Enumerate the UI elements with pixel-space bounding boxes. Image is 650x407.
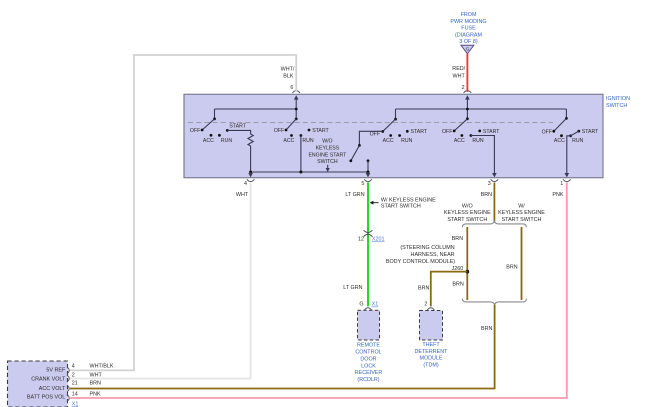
svg-text:W/ KEYLESS ENGINE: W/ KEYLESS ENGINE bbox=[381, 198, 436, 204]
wire: pin 6 drop bbox=[295, 97, 297, 119]
switch gang 4 (pin 3 feed) bbox=[442, 117, 500, 144]
svg-text:RECEIVER: RECEIVER bbox=[355, 370, 383, 376]
svg-text:OFF: OFF bbox=[542, 129, 552, 135]
connector pin 2 (CRANK VOLT) bbox=[67, 372, 102, 382]
svg-text:WHT/BLK: WHT/BLK bbox=[90, 364, 114, 370]
svg-text:START: START bbox=[582, 129, 599, 135]
svg-text:RUN: RUN bbox=[401, 138, 412, 144]
svg-text:(DIAGRAM: (DIAGRAM bbox=[455, 32, 482, 38]
svg-text:BRN: BRN bbox=[481, 326, 492, 332]
svg-text:(STEERING COLUMN: (STEERING COLUMN bbox=[400, 245, 454, 251]
wire: riser to gang 5 pivot bbox=[565, 109, 567, 118]
svg-text:3 OF 8): 3 OF 8) bbox=[459, 39, 477, 45]
note: W/ KEYLESS ENGINE START SWITCH (callout arrow) bbox=[370, 198, 437, 210]
inline connector X201 on LT GRN wire bbox=[358, 230, 384, 242]
svg-text:SWITCH: SWITCH bbox=[317, 159, 338, 165]
wire: gang1 START contact to resistor bbox=[227, 130, 250, 134]
svg-text:BRN: BRN bbox=[418, 285, 429, 291]
svg-text:3: 3 bbox=[488, 181, 491, 187]
svg-text:2: 2 bbox=[462, 85, 465, 91]
svg-text:W/O: W/O bbox=[322, 139, 332, 145]
pin 6 entry arrow bbox=[294, 95, 299, 99]
svg-text:THEFT: THEFT bbox=[422, 342, 440, 348]
svg-text:OFF: OFF bbox=[190, 128, 200, 134]
svg-text:W/O: W/O bbox=[462, 203, 473, 209]
pin 2 (top) bbox=[462, 85, 472, 93]
wire: pin 5 exit bbox=[367, 172, 369, 174]
pin 4 (bottom) bbox=[244, 179, 254, 187]
wire: pin 2 drop bbox=[466, 97, 468, 119]
wire PNK: ignition pin 1 to connector pin 14 bbox=[70, 182, 567, 398]
svg-text:START: START bbox=[483, 129, 500, 135]
svg-text:(TDM): (TDM) bbox=[423, 362, 438, 368]
svg-text:21: 21 bbox=[72, 381, 78, 387]
auxiliary lever (w/o keyless variant) bbox=[358, 144, 361, 147]
wire RED/WHT: fuse to ignition pin 2 bbox=[466, 54, 468, 92]
wire: pin5 contact drop bbox=[367, 159, 370, 162]
svg-text:14: 14 bbox=[72, 392, 78, 398]
wire: resistor to bottom junction bbox=[250, 146, 252, 172]
svg-text:PWR MODING: PWR MODING bbox=[450, 19, 486, 25]
svg-text:SWITCH: SWITCH bbox=[606, 103, 627, 109]
svg-text:ACC: ACC bbox=[283, 138, 294, 144]
svg-text:BRN: BRN bbox=[90, 381, 101, 387]
svg-text:FROM: FROM bbox=[461, 12, 477, 18]
wire: riser to gang 3 pivot bbox=[395, 109, 397, 119]
RCDLR module bbox=[355, 302, 383, 384]
svg-text:BATT POS VOL: BATT POS VOL bbox=[27, 395, 65, 401]
note: W/ KEYLESS ENGINE START SWITCH (right option) bbox=[498, 203, 545, 223]
svg-text:WHT: WHT bbox=[90, 372, 103, 378]
svg-text:CONTROL: CONTROL bbox=[355, 350, 381, 356]
wire: gang5 RUN to pin 1 bbox=[567, 136, 571, 174]
pin 2 entry arrow bbox=[465, 95, 470, 99]
svg-text:WHT: WHT bbox=[453, 73, 466, 79]
wire: pin 4 exit bbox=[250, 172, 252, 174]
svg-text:MODULE: MODULE bbox=[419, 356, 442, 362]
svg-text:X201: X201 bbox=[372, 237, 385, 243]
svg-text:ACC: ACC bbox=[454, 138, 465, 144]
TDM module bbox=[415, 302, 449, 369]
svg-text:BRN: BRN bbox=[506, 264, 517, 270]
switch gang 1 (5V REF) bbox=[190, 118, 247, 144]
wire WHT: ignition pin 4 to connector pin 2 bbox=[70, 182, 251, 378]
svg-text:DOOR: DOOR bbox=[360, 356, 376, 362]
svg-text:RUN: RUN bbox=[302, 138, 313, 144]
wire BRN: merged branch to connector pin 21 bbox=[70, 305, 495, 389]
option split brace (top) bbox=[462, 221, 526, 227]
svg-text:ACC VOLT: ACC VOLT bbox=[39, 386, 66, 392]
svg-text:X1: X1 bbox=[72, 401, 79, 407]
pin 1 (bottom) bbox=[560, 179, 570, 187]
option merge brace (bottom) bbox=[462, 299, 526, 305]
resistor (key-in resistor) bbox=[248, 134, 253, 146]
wire: gang2 RUN drop to junction bbox=[300, 136, 302, 173]
svg-text:WHT/: WHT/ bbox=[281, 66, 295, 72]
switch gang 2 (CRANK VOLT) bbox=[274, 118, 330, 145]
node: junction pin4 bbox=[249, 171, 252, 174]
svg-text:START SWITCH: START SWITCH bbox=[447, 217, 487, 223]
note: W/O KEYLESS ENGINE START SWITCH (internal) bbox=[308, 139, 347, 172]
ignition switch label bbox=[606, 96, 630, 109]
svg-text:2: 2 bbox=[72, 372, 75, 378]
wire: internal feed bus from pin 6 bbox=[215, 108, 297, 110]
ignition switch box bbox=[184, 94, 603, 177]
svg-text:IGNITION: IGNITION bbox=[606, 96, 630, 102]
wire BRN: ignition pin 3 down to option brace bbox=[493, 182, 495, 221]
wire: riser to gang 1 pivot bbox=[214, 109, 216, 119]
svg-text:BODY CONTROL MODULE): BODY CONTROL MODULE) bbox=[386, 259, 455, 265]
svg-text:ENGINE START: ENGINE START bbox=[308, 152, 347, 158]
connector pin 4 (5V REF) bbox=[67, 364, 114, 374]
wire: bottom junction line to pin 5 bbox=[251, 171, 368, 173]
svg-text:ACC: ACC bbox=[383, 138, 394, 144]
svg-text:W/: W/ bbox=[518, 203, 525, 209]
fuse feed triangle (from PWR MODING fuse) bbox=[450, 12, 486, 54]
svg-text:START: START bbox=[411, 129, 428, 135]
svg-text:RED/: RED/ bbox=[452, 66, 465, 72]
svg-text:LT GRN: LT GRN bbox=[343, 285, 362, 291]
svg-text:12: 12 bbox=[358, 236, 364, 242]
connector pin 21 (ACC VOLT) bbox=[67, 381, 101, 392]
svg-text:START: START bbox=[312, 128, 329, 134]
svg-text:KEYLESS ENGINE: KEYLESS ENGINE bbox=[444, 210, 491, 216]
wire LT GRN: ignition pin 5 to RCDLR bbox=[367, 182, 369, 306]
svg-text:X1: X1 bbox=[372, 302, 379, 308]
svg-text:LOCK: LOCK bbox=[361, 363, 376, 369]
node: bus junction at pin6 bbox=[295, 108, 298, 111]
wire: gang4 RUN to pin 3 bbox=[471, 136, 495, 174]
svg-text:START SWITCH: START SWITCH bbox=[381, 204, 421, 210]
wire: internal feed bus from pin 2 bbox=[396, 108, 567, 110]
svg-text:1: 1 bbox=[560, 181, 563, 187]
svg-text:ACC: ACC bbox=[554, 138, 565, 144]
svg-text:RUN: RUN bbox=[572, 138, 583, 144]
wire BRN: splice to TDM bbox=[431, 272, 468, 307]
svg-text:FUSE: FUSE bbox=[461, 26, 476, 32]
svg-text:5V REF: 5V REF bbox=[46, 368, 66, 374]
ignition switch mechanical linkage (dashed) bbox=[188, 122, 553, 124]
pin 6 (top) bbox=[290, 85, 300, 93]
svg-text:5: 5 bbox=[361, 181, 364, 187]
svg-text:BLK: BLK bbox=[283, 74, 294, 80]
svg-text:OFF: OFF bbox=[370, 132, 380, 138]
wire: gang3 OFF contact link bbox=[359, 131, 382, 145]
svg-text:RUN: RUN bbox=[221, 138, 232, 144]
svg-text:6: 6 bbox=[290, 85, 293, 91]
node: bus junction at pin2 bbox=[466, 108, 469, 111]
body control module connector X1 (bottom left) bbox=[8, 361, 68, 407]
switch gang 3 (pin 5 feed) bbox=[370, 118, 428, 144]
svg-text:KEYLESS: KEYLESS bbox=[316, 146, 340, 152]
svg-text:BRN: BRN bbox=[452, 281, 463, 287]
svg-text:PNK: PNK bbox=[90, 392, 101, 398]
connector pin 14 (BATT POS VOL) bbox=[67, 392, 101, 402]
svg-text:2: 2 bbox=[424, 302, 427, 308]
svg-text:OFF: OFF bbox=[274, 128, 284, 134]
svg-text:RUN: RUN bbox=[472, 138, 483, 144]
switch gang 5 (BATT POS) bbox=[542, 117, 600, 144]
svg-text:4: 4 bbox=[72, 364, 75, 370]
svg-text:G: G bbox=[359, 302, 363, 308]
svg-text:BRN: BRN bbox=[452, 236, 463, 242]
splice J260 bbox=[465, 270, 469, 274]
svg-text:4: 4 bbox=[244, 181, 247, 187]
svg-text:DETERRENT: DETERRENT bbox=[415, 349, 449, 355]
wire BRN: left option branch bbox=[466, 227, 468, 300]
svg-text:REMOTE: REMOTE bbox=[357, 343, 380, 349]
svg-text:START SWITCH: START SWITCH bbox=[502, 217, 542, 223]
svg-text:KEYLESS ENGINE: KEYLESS ENGINE bbox=[498, 210, 545, 216]
svg-text:OFF: OFF bbox=[442, 129, 452, 135]
svg-text:ACC: ACC bbox=[203, 138, 214, 144]
pin 3 (bottom) bbox=[488, 179, 498, 187]
svg-text:START: START bbox=[229, 123, 246, 129]
wire BRN: right option branch bbox=[521, 227, 523, 300]
note: W/O KEYLESS ENGINE START SWITCH (left option) bbox=[444, 203, 491, 223]
svg-text:HARNESS, NEAR: HARNESS, NEAR bbox=[411, 252, 455, 258]
svg-text:BRN: BRN bbox=[481, 192, 492, 198]
note: steering column harness splice bbox=[386, 245, 463, 272]
svg-text:G: G bbox=[466, 46, 470, 51]
wire WHT/BLK: ignition pin 6 to connector pin 4 bbox=[70, 55, 296, 370]
svg-text:WHT: WHT bbox=[236, 192, 249, 198]
svg-text:PNK: PNK bbox=[552, 192, 563, 198]
svg-text:LT GRN: LT GRN bbox=[345, 192, 364, 198]
wire: gang5 START-RUN link bbox=[571, 131, 579, 136]
pin 5 (bottom) bbox=[361, 179, 371, 187]
svg-text:(RCDLR): (RCDLR) bbox=[357, 377, 379, 383]
svg-text:CRANK VOLT: CRANK VOLT bbox=[31, 377, 66, 383]
